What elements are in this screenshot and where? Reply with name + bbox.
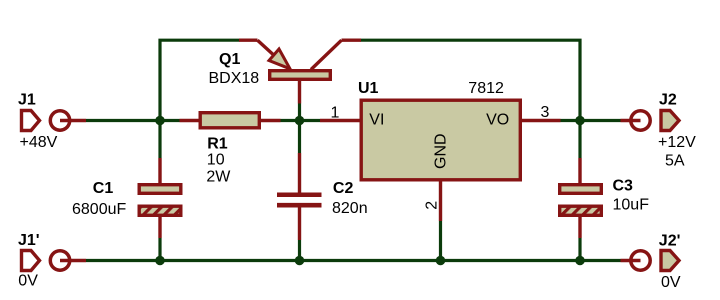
capacitor C3 — [560, 158, 602, 238]
svg-text:+48V: +48V — [20, 134, 58, 151]
svg-text:6800uF: 6800uF — [72, 201, 126, 218]
svg-text:2: 2 — [424, 201, 441, 210]
wire mid rail left green — [86, 119, 180, 122]
wire C2 bottom leg green — [298, 240, 301, 261]
svg-text:VO: VO — [486, 112, 509, 129]
junction node C3 bottom — [575, 256, 585, 266]
wire top rail green segment — [160, 40, 239, 120]
wire top rail right green segment — [361, 40, 581, 120]
junction node VO — [575, 116, 585, 126]
resistor R1 — [180, 113, 281, 128]
svg-text:J2': J2' — [659, 233, 681, 250]
svg-text:820n: 820n — [332, 200, 368, 217]
wire U1 gnd leg green — [439, 221, 442, 261]
svg-text:GND: GND — [433, 133, 450, 169]
capacitor C1 — [139, 158, 181, 238]
connector J2 — [621, 111, 680, 131]
svg-text:10uF: 10uF — [613, 197, 650, 214]
svg-text:VI: VI — [369, 112, 384, 129]
regulator U1 — [320, 100, 561, 221]
svg-text:C3: C3 — [613, 178, 634, 195]
svg-text:0V: 0V — [18, 273, 38, 290]
wire mid rail center green — [281, 119, 321, 122]
svg-text:7812: 7812 — [468, 80, 504, 97]
junction node GND bottom — [436, 256, 446, 266]
svg-text:10: 10 — [207, 151, 225, 168]
svg-text:J2: J2 — [659, 92, 677, 109]
connector J2' — [621, 251, 680, 271]
svg-text:U1: U1 — [358, 80, 379, 97]
svg-text:5A: 5A — [665, 152, 685, 169]
svg-text:Q1: Q1 — [219, 51, 240, 68]
svg-text:BDX18: BDX18 — [209, 70, 260, 87]
wire C3 bottom leg green — [578, 238, 581, 261]
svg-text:3: 3 — [541, 104, 550, 121]
svg-text:0V: 0V — [661, 274, 681, 291]
wire mid rail right green — [561, 119, 621, 122]
junction node R1 left — [155, 116, 165, 126]
junction node Q1 base — [295, 116, 305, 126]
svg-text:C1: C1 — [93, 180, 114, 197]
connector J1' — [22, 251, 87, 271]
svg-text:2W: 2W — [206, 168, 231, 185]
wire bottom rail green — [86, 259, 621, 262]
wire Q1 base leg green — [298, 104, 301, 154]
svg-text:J1': J1' — [18, 232, 40, 249]
connector J1 — [22, 111, 87, 131]
svg-text:R1: R1 — [207, 135, 228, 152]
junction node C1 bottom — [155, 256, 165, 266]
junction node C2 bottom — [295, 256, 305, 266]
wire C1 bottom leg green — [158, 238, 161, 261]
wire C3 top leg green — [578, 121, 581, 159]
capacitor C2 — [277, 153, 322, 240]
svg-text:J1: J1 — [18, 92, 36, 109]
transistor Q1 — [239, 40, 361, 103]
svg-text:C2: C2 — [333, 180, 354, 197]
svg-text:+12V: +12V — [658, 134, 696, 151]
svg-text:1: 1 — [331, 104, 340, 121]
wire C1 top leg green — [158, 121, 161, 159]
